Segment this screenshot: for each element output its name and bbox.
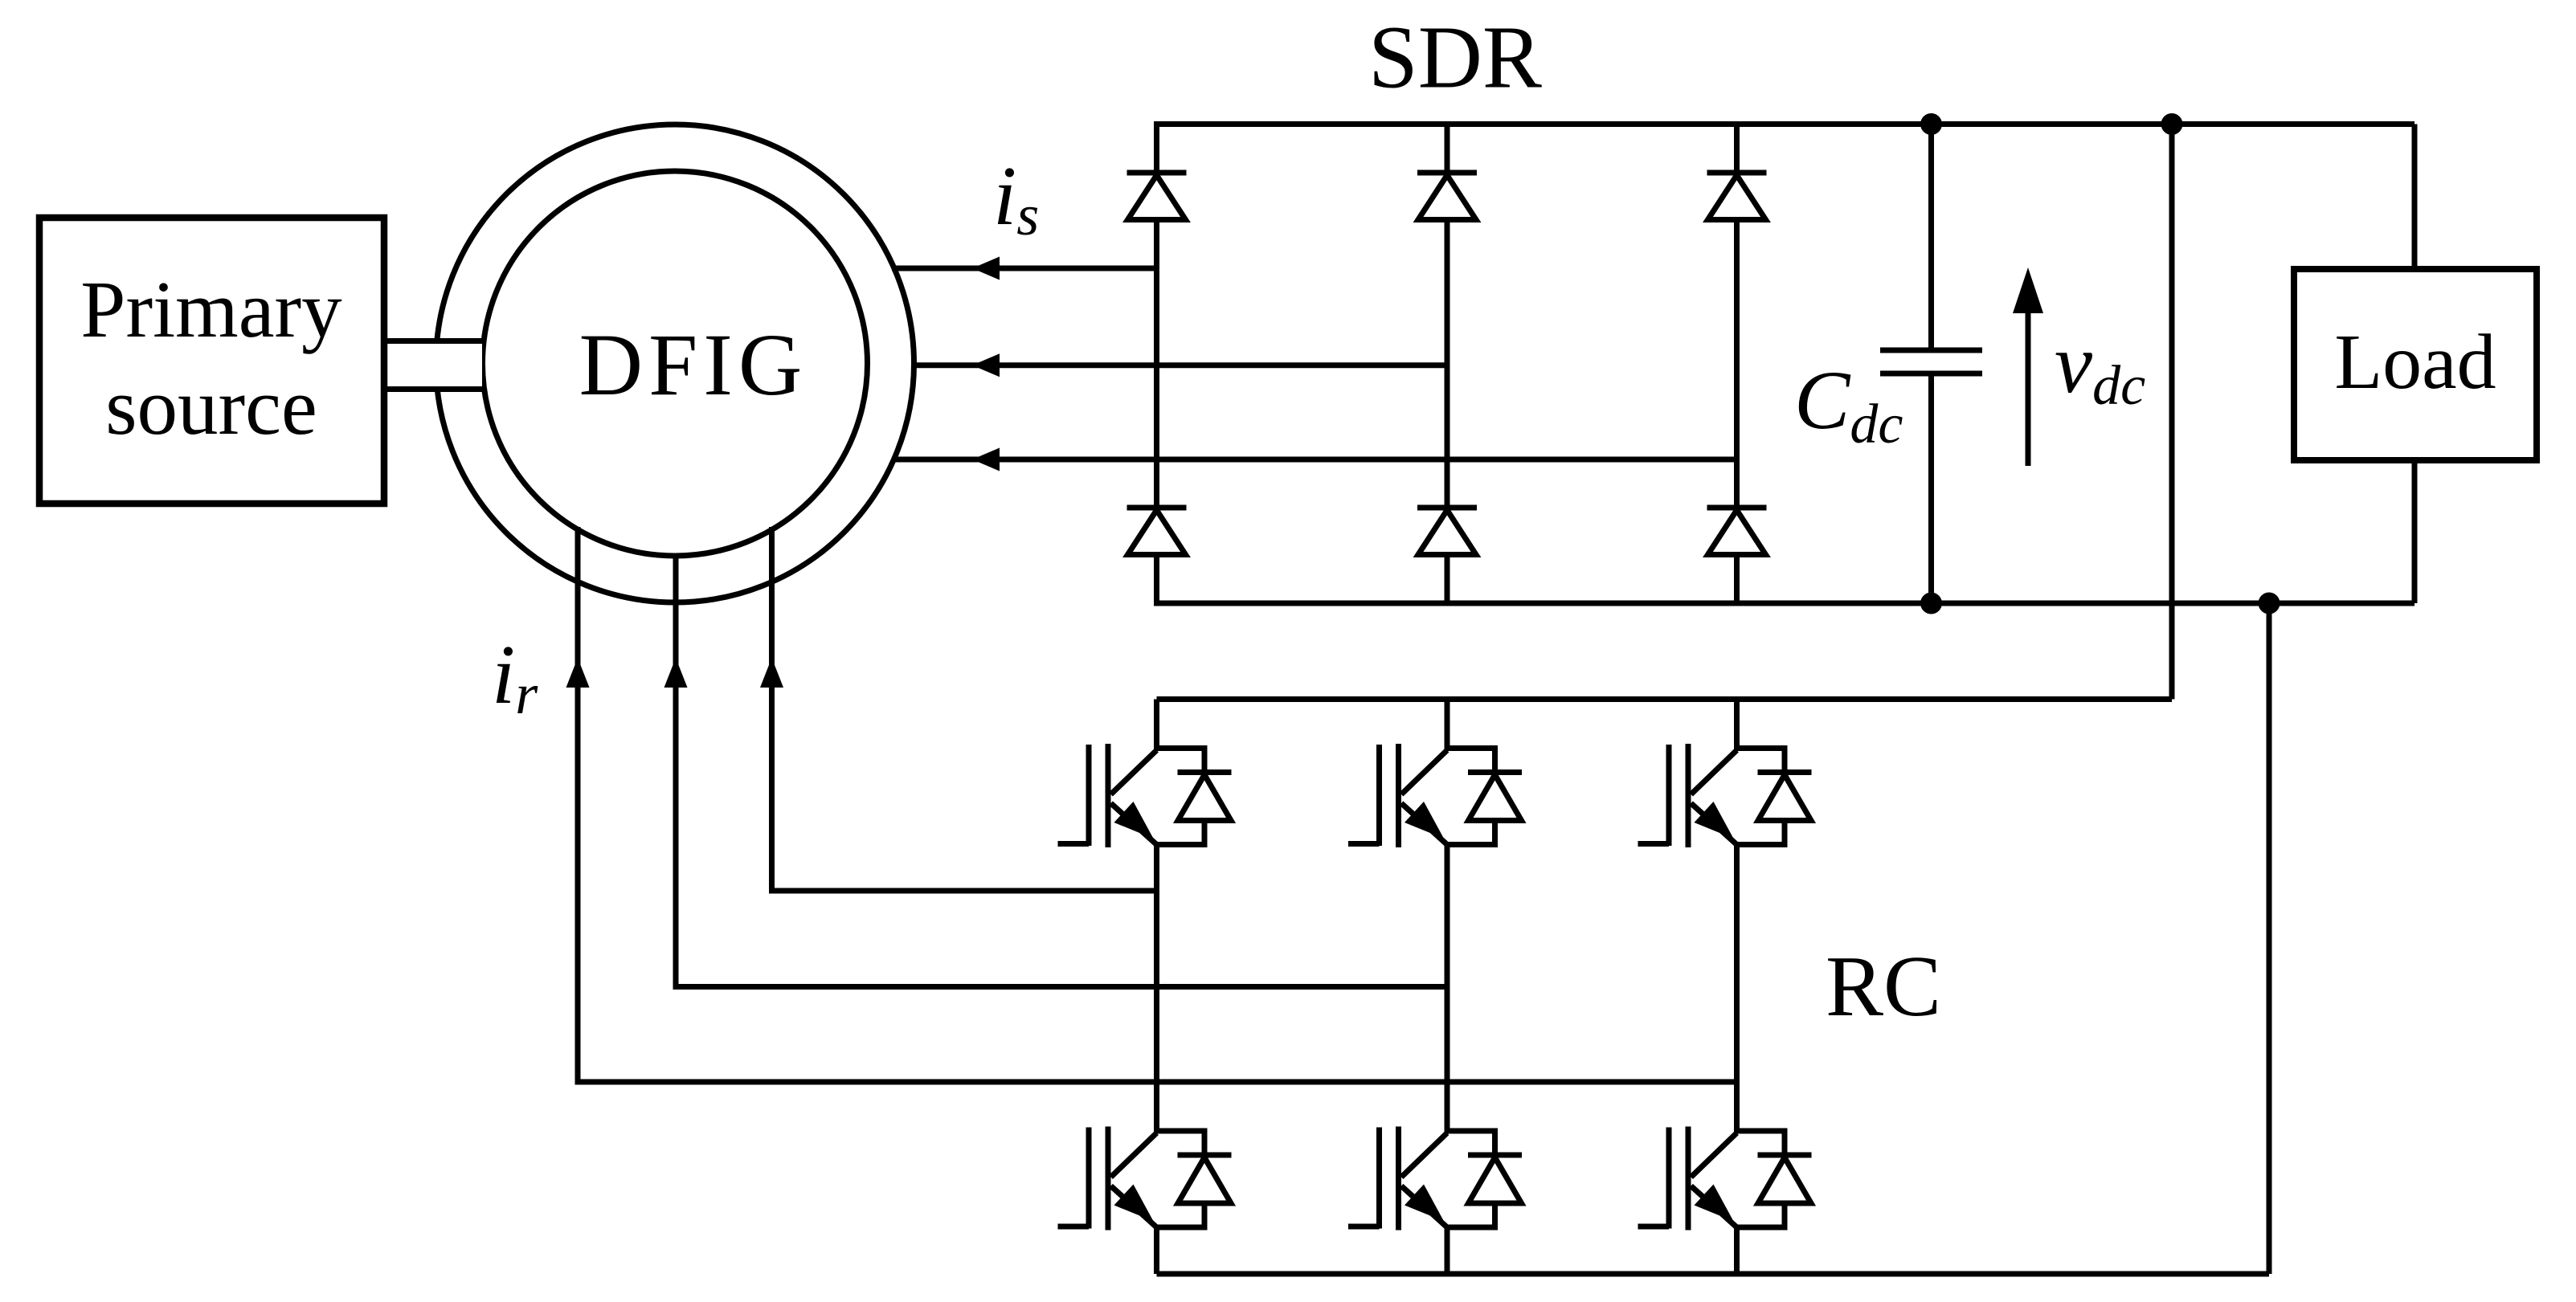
arrowhead i_r phase a <box>566 658 590 688</box>
junction dot top bus / capacitor <box>1920 113 1942 135</box>
wire: dc- feed to RC <box>2267 603 2272 1274</box>
label "Primary source" <box>80 264 342 451</box>
wire: SDR leg 1 lower segment <box>1154 555 1159 603</box>
diode DQ3 (antiparallel) <box>1737 749 1812 845</box>
wire: SDR leg 1 upper segment <box>1154 124 1159 173</box>
wire: RC leg 1 top segment <box>1154 700 1159 751</box>
junction dot top bus / RC feed <box>2161 113 2183 135</box>
DFIG rotor inner circle <box>483 171 868 556</box>
diode D4 (lower, leg 1) <box>1127 508 1187 555</box>
wire: RC leg 2 top segment <box>1445 700 1450 751</box>
diode DQ2 (antiparallel) <box>1447 749 1522 845</box>
wire: capacitor bottom lead <box>1928 373 1934 603</box>
wire: SDR leg 2 lower segment <box>1445 555 1450 603</box>
IGBT Q6 (lower, leg 3) <box>1638 1127 1737 1231</box>
DFIG stator outer circle <box>436 124 914 602</box>
wire: dc+ top bus <box>1154 121 2414 127</box>
arrowhead is phase b <box>972 353 1000 377</box>
IGBT Q1 (upper, leg 1) <box>1058 744 1157 847</box>
wire: RC leg 3 middle segment <box>1734 845 1740 1133</box>
wire: rotor phase b lead <box>676 554 1447 987</box>
wire: stator phase b line <box>912 362 1447 368</box>
arrowhead is phase c <box>972 448 1000 471</box>
IGBT Q5 (lower, leg 2) <box>1348 1127 1447 1231</box>
wire: stator phase c line <box>892 457 1737 463</box>
capacitor Cdc <box>1880 350 1982 373</box>
wire: SDR leg 3 lower segment <box>1734 555 1740 603</box>
svg-text:Load: Load <box>2334 319 2496 406</box>
wire: SDR leg 2 middle segment <box>1445 220 1450 508</box>
arrowhead is phase a <box>972 257 1000 280</box>
wire: rotor phase a lead <box>578 527 1737 1082</box>
svg-text:Primary: Primary <box>80 264 342 354</box>
diode D6 (lower, leg 3) <box>1707 508 1767 555</box>
arrowhead i_r phase b <box>664 658 688 688</box>
svg-text:RC: RC <box>1826 939 1941 1035</box>
diode DQ4 (antiparallel) <box>1157 1131 1232 1227</box>
wire: RC leg 1 middle segment <box>1154 845 1159 1133</box>
diode DQ1 (antiparallel) <box>1157 749 1232 845</box>
Primary source box <box>39 218 384 504</box>
IGBT Q3 (upper, leg 3) <box>1638 744 1737 847</box>
diode DQ6 (antiparallel) <box>1737 1131 1812 1227</box>
diode D2 (upper, leg 2) <box>1417 173 1477 220</box>
wire: RC top rail <box>1157 696 2173 702</box>
svg-text:source: source <box>105 361 317 451</box>
wire: load top lead <box>2412 124 2418 270</box>
arrow v_dc reference <box>2013 267 2043 466</box>
svg-text:SDR: SDR <box>1368 9 1542 108</box>
wire: SDR leg 2 upper segment <box>1445 124 1450 173</box>
junction dot bottom bus / RC return <box>2259 593 2280 614</box>
wire: RC bottom rail <box>1157 1271 2270 1277</box>
svg-text:DFIG: DFIG <box>579 316 808 414</box>
IGBT Q4 (lower, leg 1) <box>1058 1127 1157 1231</box>
wire: capacitor top lead <box>1928 124 1934 351</box>
diode D3 (upper, leg 3) <box>1707 173 1767 220</box>
diode D1 (upper, leg 1) <box>1127 173 1187 220</box>
wire: rotor phase c lead <box>772 527 1157 891</box>
junction dot bottom bus / capacitor <box>1920 593 1942 614</box>
wire: RC leg 2 bottom segment <box>1445 1227 1450 1274</box>
wire: SDR leg 3 middle segment <box>1734 220 1740 508</box>
diode DQ5 (antiparallel) <box>1447 1131 1522 1227</box>
Load box <box>2294 269 2537 460</box>
wire: SDR leg 3 upper segment <box>1734 124 1740 173</box>
shaft between primary source and DFIG <box>385 341 485 390</box>
wire: load bottom lead <box>2412 460 2418 603</box>
wire: dc- bottom bus <box>1154 601 2414 606</box>
IGBT Q2 (upper, leg 2) <box>1348 744 1447 847</box>
wire: SDR leg 1 middle segment <box>1154 220 1159 508</box>
wire: dc+ feed to RC <box>2169 124 2175 700</box>
diode D5 (lower, leg 2) <box>1417 508 1477 555</box>
arrowhead i_r phase c <box>760 658 783 688</box>
wire: stator phase a line <box>892 266 1157 271</box>
wire: RC leg 1 bottom segment <box>1154 1227 1159 1274</box>
wire: RC leg 2 middle segment <box>1445 845 1450 1133</box>
wire: RC leg 3 bottom segment <box>1734 1227 1740 1274</box>
wire: RC leg 3 top segment <box>1734 700 1740 751</box>
